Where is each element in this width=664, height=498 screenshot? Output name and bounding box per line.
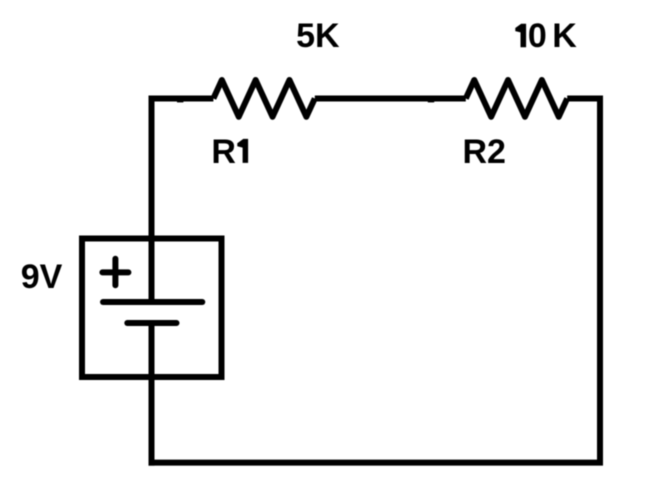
wire: bottom horizontal [149,460,604,466]
label 10K (value of R2): digit 1 drawn as path, then 0 and K [515,17,577,55]
resistor R2 [466,80,567,117]
battery V1 positive plate (long) [103,299,202,305]
battery V1 enclosure box [82,239,222,378]
svg-text:R: R [211,133,236,171]
svg-text:0: 0 [528,17,547,55]
label R1: R as text, digit 1 drawn as path [211,133,248,171]
svg-text:5K: 5K [296,17,340,55]
svg-text:9V: 9V [21,258,63,296]
wire junction node (middle) [428,96,434,103]
wire junction node (left) [177,96,183,103]
svg-text:R2: R2 [462,133,505,171]
wire: left vertical (top corner down to battery positive plate) [149,96,155,303]
wire: top middle horizontal segment between R1 and R2 [315,96,466,102]
resistor R1 [213,80,314,117]
wire: battery negative plate down to bottom-left corner [149,323,155,466]
wire: top-right horizontal segment and right vertical down to bottom-right corner [567,99,600,463]
svg-text:K: K [552,17,577,55]
battery polarity plus sign [102,259,128,286]
wire: top-left horizontal segment to R1 [149,96,214,102]
battery V1 negative plate (short) [127,320,176,326]
